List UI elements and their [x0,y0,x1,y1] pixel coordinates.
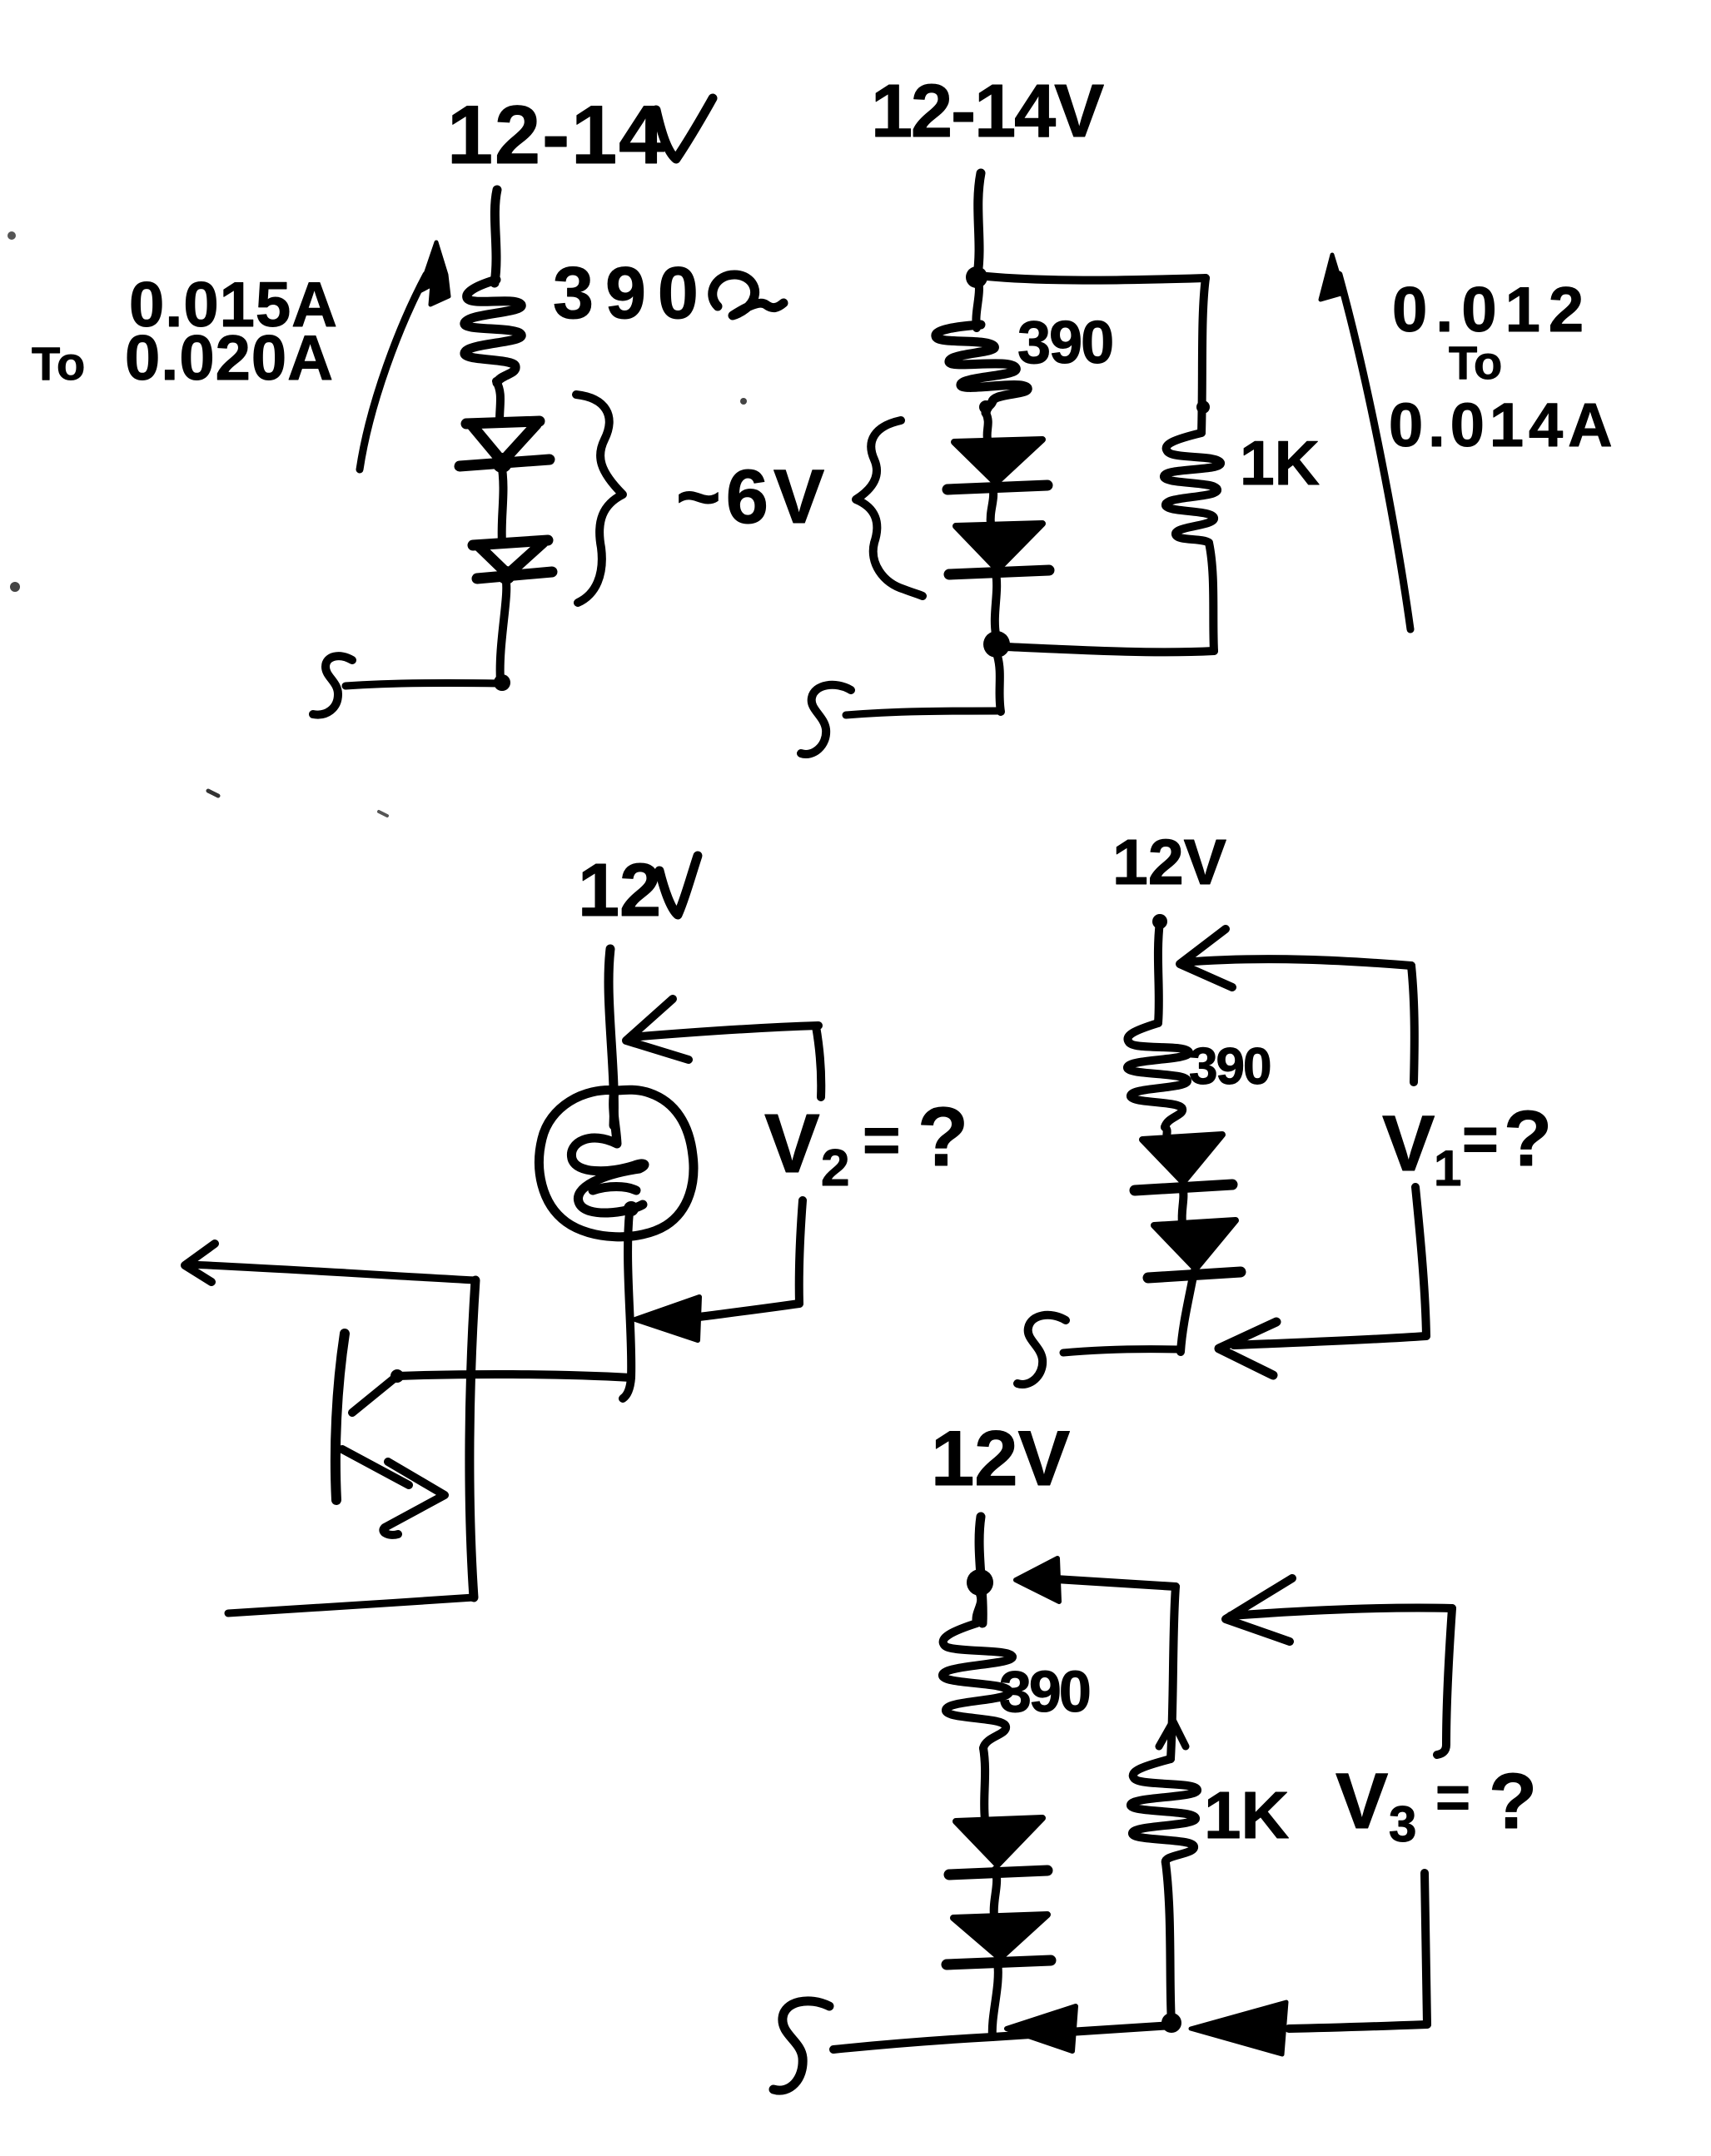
bottom node blob (circuit 2) [983,631,1010,658]
diode D3 cathode bar [948,485,1047,489]
resistor 1K (circuit 2) [1164,433,1221,543]
lamp circle [540,1090,694,1237]
paper speck [7,231,16,240]
resistor 1K (circuit 5) [1131,1759,1197,1863]
paper speck [740,398,747,405]
svg-text:2: 2 [821,1140,849,1197]
ground squiggle (circuit 5) [773,2001,829,2090]
wire supply down to node [977,173,981,275]
V2 lower vertical [799,1200,803,1304]
svg-text:12: 12 [578,849,661,932]
diode D5 (filled) [1142,1135,1222,1182]
V2 bottom arrowhead (filled) [635,1297,699,1340]
resistor 390 (circuit 5) [943,1623,1012,1748]
V3 top line [1231,1608,1452,1616]
wire R1 to diode D1 [496,381,500,421]
wire supply to 390 [1158,922,1160,1023]
V1 top line [1184,959,1411,966]
wire D4 to bottom node [995,573,997,634]
V3 bottom arrowhead (filled, pointing left) [1191,2002,1286,2054]
checkmark V of 12-14V [656,98,713,159]
junction blob [494,674,510,691]
svg-text:1: 1 [1434,1140,1461,1196]
V1 right vertical lower [1415,1187,1426,1336]
svg-text:V: V [764,1097,820,1190]
box top line [190,1264,475,1280]
diode D1 (outline triangle) [466,421,540,424]
wire D6 to ground [1181,1272,1194,1352]
svg-text:=: = [1435,1765,1470,1831]
svg-text:12V: 12V [1112,827,1226,898]
arrowhead (current arrow c1) [420,242,449,305]
wire 390 to D7 [983,1748,985,1820]
checkmark V of 12V (c3) [659,856,698,915]
lamp filament scribble [571,1090,644,1213]
ink blob at D1 apex [492,453,512,473]
wire D7 to D8 [994,1870,997,1916]
svg-text:?: ? [918,1090,968,1184]
wire lamp to transistor collector [623,1212,631,1398]
svg-text:=: = [863,1103,901,1176]
junction dot on right branch [1196,400,1210,414]
paper speck [379,812,387,816]
wire D3 to D4 [991,486,993,524]
wire supply to lamp [609,949,614,1125]
diode D4 (filled) [956,524,1042,569]
right branch wire down to 1K [1201,278,1206,433]
diode D2 (outline triangle) [473,540,548,545]
ground wire (circuit 4) [1063,1349,1180,1353]
V3 bottom line [1289,2024,1427,2029]
diode D7 cathode bar [949,1870,1047,1875]
resistor 390 (circuit 2) [936,325,1027,413]
diode D3 (filled) [954,440,1042,483]
svg-text:12-14: 12-14 [447,88,666,181]
svg-text:?: ? [1504,1095,1552,1183]
transistor emitter arrow chevron [383,1462,445,1535]
ground wire (circuit 1) [346,683,500,686]
svg-text:390: 390 [1017,310,1112,376]
svg-text:To: To [1449,336,1502,389]
V1 bottom line [1234,1336,1426,1345]
curly brace right of diodes [576,395,623,603]
V1 bottom arrowhead chevron [1219,1322,1276,1375]
curly brace left of diodes (circuit 2) [856,420,923,596]
svg-text:=: = [1462,1104,1499,1174]
small up arrow on right branch [1159,1721,1186,1746]
wire 1K to bottom corner [1209,543,1214,651]
ink blob at D2 apex [497,566,515,584]
svg-text:3: 3 [1389,1796,1416,1852]
wire 390 to D5 [1165,1127,1167,1137]
wire D8 to bottom wire [992,1961,998,2037]
svg-text:12-14V: 12-14V [871,70,1104,153]
svg-text:0.014A: 0.014A [1389,390,1618,460]
ground wire (circuit 2) [846,711,1000,715]
V3 right vertical upper [1437,1608,1452,1755]
svg-text:0.020A: 0.020A [125,323,334,394]
resistor 390 (circuit 4) [1127,1023,1189,1127]
node blob [966,266,987,288]
diode D8 cathode bar [947,1960,1051,1965]
svg-text:390: 390 [553,251,710,334]
bottom wire right-to-node [1006,647,1214,652]
wire node to ground [997,656,1001,712]
top blob [1152,914,1167,929]
V3 right vertical lower [1425,1873,1427,2024]
wire supply to resistor R1 [495,190,497,283]
svg-text:?: ? [1489,1757,1537,1846]
omega glyph of 390ohm [713,275,783,315]
node blob (circuit 5) [967,1569,993,1596]
V2 top line [630,1026,818,1037]
ground squiggle (circuit 2) [801,685,851,754]
svg-text:1K: 1K [1240,428,1320,498]
arrowhead into node (filled, pointing left) [1016,1558,1059,1602]
wire supply to node [979,1517,982,1623]
paper speck [10,582,20,592]
collector wire to transistor [398,1374,631,1378]
transistor collector diagonal [352,1376,397,1413]
wire node to right branch (top) [978,276,1206,281]
wire D2 to ground node [500,576,507,681]
paper speck [208,791,218,796]
wire D1 to D2 [501,463,503,543]
V1 right vertical upper [1411,966,1415,1082]
lamp filament lower blob [593,1187,636,1191]
arrowhead (current arrow c2) [1321,255,1344,300]
diode D6 (filled) [1154,1220,1236,1269]
lamp bottom blob [624,1201,639,1216]
box bottom line [228,1597,474,1613]
svg-text:0.012: 0.012 [1392,275,1592,345]
transistor emitter diagonal [342,1449,409,1485]
wire D5 to D6 [1182,1185,1184,1224]
svg-text:To: To [32,337,85,390]
V2 top arrow chevron [626,999,689,1060]
diode D8 (filled) [953,1915,1047,1958]
diode D6 cathode bar [1148,1272,1241,1278]
diode D5 cathode bar [1135,1185,1232,1190]
bottom junction blob [1161,2013,1181,2033]
diode D7 (filled) [956,1818,1042,1865]
svg-text:1K: 1K [1204,1778,1289,1852]
collector junction blob [390,1369,404,1383]
current arrow 0.012-0.014A [1339,275,1410,629]
svg-text:V: V [1335,1757,1388,1846]
svg-text:12V: 12V [931,1414,1071,1502]
diode D4 cathode bar [949,570,1049,574]
svg-text:390: 390 [999,1659,1090,1724]
svg-text:~6V: ~6V [676,455,829,539]
arrowhead on bottom wire (filled, pointing left) [1007,2006,1076,2051]
diode D2 cathode bar [477,572,552,579]
current arrow 0.015-0.020A [360,275,426,469]
wire 390 to diode [986,413,988,440]
ground squiggle (circuit 4) [1017,1315,1066,1384]
wire 1K to bottom junction [1166,1863,1171,2023]
wire node down through 390 (c5) [977,1594,982,1623]
V3 top arrow chevron [1226,1578,1292,1642]
svg-text:V: V [1382,1100,1435,1188]
svg-text:390: 390 [1189,1038,1270,1095]
bottom wire (circuit 5) [833,2025,1172,2049]
V2 bottom line [699,1304,799,1317]
wire node to right branch [1056,1579,1176,1587]
V2 top corner vertical [816,1026,821,1097]
ground squiggle (circuit 1) [313,656,352,714]
resistor R1 390ohm [465,280,521,383]
transistor base bar [336,1334,345,1500]
V1 top arrow chevron [1180,929,1232,987]
wire node down through 390 [976,277,979,328]
box top-left arrowhead [185,1244,215,1282]
right branch vertical to 1K [1171,1587,1176,1759]
box right vertical [470,1280,475,1597]
diode D1 cathode bar [460,460,550,466]
